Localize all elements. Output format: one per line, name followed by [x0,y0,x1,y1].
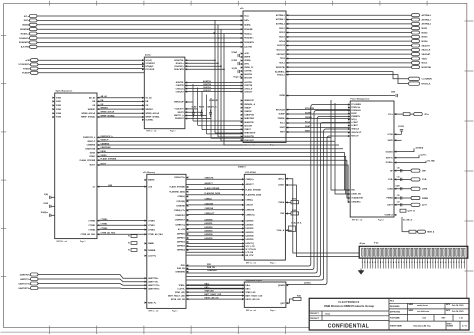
svg-text:4 / 11: 4 / 11 [462,325,466,328]
connector LDRA [411,187,420,190]
wire ROADNE [37,28,243,30]
svg-text:VCDW: VCDW [231,60,237,62]
svg-text:VBNDOUP: VBNDOUP [244,100,254,102]
svg-text:FLASH_STROBE: FLASH_STROBE [246,188,262,191]
pin WLBNGT (Audio) [185,117,187,119]
svg-text:C/WE1NE: C/WE1NE [176,206,185,208]
svg-text:NUMBER: NUMBER [447,325,453,327]
capacitor VCAW [237,54,239,57]
wire MODDTAI [286,66,412,68]
capacitor C21 [394,178,411,180]
pin DC/BAx (Power Management) [394,161,396,163]
pin QHSKN (Keyboard) [286,284,288,286]
svg-text:C/WE1NE: C/WE1NE [246,209,255,211]
svg-text:DBPRD3: DBPRD3 [177,246,185,248]
svg-text:BOOT: BOOT [101,163,107,165]
svg-text:DESK: DESK [90,152,96,154]
pin C/XD1M (LCD) [242,204,244,206]
svg-text:LCD 4/CHA: LCD 4/CHA [245,171,256,174]
svg-text:SDATA: SDATA [244,24,251,27]
svg-text:ESERVICE_b: ESERVICE_b [101,136,114,138]
pin LBXWD1 (LCD) [242,224,244,226]
svg-text:SILDDAT: SILDDAT [277,53,286,56]
svg-text:EGDP: EGDP [351,113,357,115]
svg-text:AB_A0: AB_A0 [89,96,95,99]
connector VPLx [410,113,414,115]
svg-text:LCDAT: LCDAT [351,121,358,124]
svg-text:CHSCKT: CHSCKT [203,90,212,92]
pin AXTRAL0 (uP) [286,14,288,16]
wire ROACLx branch [218,63,243,137]
svg-text:PCL/ENBV: PCL/ENBV [351,104,361,106]
svg-text:XWSHDL_A: XWSHDL_A [244,103,255,106]
svg-text:DBPRD0: DBPRD0 [177,234,185,236]
pin C/WE(L) (LCD) [242,199,244,201]
svg-text:FLASH/NE_DATA: FLASH/NE_DATA [169,190,185,193]
svg-text:Page 1: Page 1 [170,131,176,133]
pin C/WBKT-Q (uPx Memory) [186,224,188,226]
svg-text:Cur/SIN(P): Cur/SIN(P) [422,78,433,81]
svg-text:XWSK_FL: XWSK_FL [244,67,254,69]
svg-text:CTWE_AD_PAG: CTWE_AD_PAG [101,232,116,235]
svg-text:QxTT_B: QxTT_B [408,211,416,213]
svg-text:MOD3: MOD3 [279,37,285,39]
svg-text:ROACATN: ROACATN [174,68,184,71]
wire SLEEP [286,113,350,115]
pin SHWGITW (uP) [241,135,243,137]
pin KBW_PL (uPx Memory) [145,302,147,304]
svg-text:TXD0: TXD0 [280,58,285,60]
pin WREN_ACKxR (Audio) [142,112,144,114]
pin DB (Audio) [142,100,144,102]
svg-text:KEYB_LED_DN: KEYB_LED_DN [246,299,261,301]
connector RTS/CLS [409,82,420,85]
pin VCGA (Power Management) [394,133,396,135]
wire UATE [394,139,402,141]
svg-text:MVD LP: MVD LP [351,136,359,138]
svg-text:Chap: Chap [325,313,331,315]
pin MOD3 (uP) [286,36,288,38]
pin C/WE1NE (LCD) [242,209,244,211]
wire SCLx [37,15,243,17]
svg-text:CTWE_AD_PAG: CTWE_AD_PAG [80,233,95,236]
pin LCDTTL (uPx Memory) [186,288,188,290]
wire LBXKT4 [186,254,244,256]
connector VC/GESNTx [30,63,38,66]
svg-text:CHADRKx: CHADRKx [351,201,361,204]
resistor R10 [403,113,410,116]
pin RTS(A)P (Audio) [142,65,144,67]
pin ESERVICE_b (Speed Expansion) [97,136,99,138]
svg-text:SC_NB_A: SC_NB_A [403,219,412,222]
pin CHSCLK (uP) [241,88,243,90]
svg-text:LBXKT-Q: LBXKT-Q [246,243,255,245]
pin LCD/TTL (uPx Memory) [145,255,147,257]
svg-text:C/WPBXKT: C/WPBXKT [175,220,186,222]
svg-text:Page x: Page x [270,262,276,264]
pin CTWE1 (uPx Memory) [145,224,147,226]
svg-text:RTSNT: RTSNT [23,68,31,70]
pin LCD_DN (LCD) [242,251,244,253]
resistor R11 [402,231,409,233]
capacitor UQTE [237,70,239,73]
pin BATT_FAULT_LED (uPx Memory) [186,295,188,297]
wire CND [285,213,291,215]
wire AXTRAL0 [286,14,412,16]
svg-text:FLASH/NE_DATA: FLASH/NE_DATA [205,192,221,195]
svg-text:MOL0: MOL0 [279,63,284,65]
connector ROADLx [29,32,37,35]
pin CWDA (LCD) [285,201,287,203]
resistor PUM [291,212,299,215]
svg-text:TPBDL: TPBDL [178,285,185,287]
svg-text:CWDA: CWDA [278,201,285,204]
wire BATT_FAULT_LED [186,295,244,297]
svg-text:amelia hsiao: amelia hsiao [417,305,429,307]
wire AGNTNL [185,82,243,84]
svg-text:SHMGITW: SHMGITW [244,122,254,124]
wire SDAT [286,127,350,129]
svg-text:KEYB_LED_DN: KEYB_LED_DN [171,299,186,301]
svg-text:VHDB: VHDB [279,95,285,97]
svg-text:RTDCLk: RTDCLk [277,74,286,76]
svg-text:WDRK: WDRK [244,57,251,59]
svg-text:C/WE1NE: C/WE1NE [205,208,214,210]
pin DB (Speed Expansion) [97,100,99,102]
svg-text:VBNDOUP: VBNDOUP [174,102,184,104]
pin VDSRk (uP) [241,59,243,61]
wire MOD3 [286,36,412,38]
svg-text:I/O_A0: I/O_A0 [146,96,152,99]
pin ROACLx (Audio) [185,62,187,64]
capacitor C22 [394,197,411,199]
pin VOB5 (Speed Expansion) [52,116,54,118]
svg-text:AXTRAL2: AXTRAL2 [422,23,432,26]
svg-text:CTWE1: CTWE1 [101,224,109,226]
pin DBPRD3 (uPx Memory) [186,245,188,247]
wire CAMERA [97,144,339,146]
connector VC4L [411,178,420,181]
svg-text:RTS(A)P: RTS(A)P [146,65,155,68]
wire ROACATx [185,29,221,66]
svg-text:SILD078: SILD078 [277,45,286,47]
svg-text:VSBUP: VSBUP [244,107,251,109]
pin LDRA (Power Management) [394,188,396,190]
capacitor C23 [394,204,411,206]
connector MOD3 [412,35,420,38]
svg-text:VOB0: VOB0 [56,97,61,99]
pin STAR_LED (Keyboard) [242,291,244,293]
svg-text:C/WE(L)CT: C/WE(L)CT [205,213,216,215]
svg-text:WE/DE1: WE/DE1 [88,109,96,111]
svg-text:LBXWD0: LBXWD0 [246,221,254,223]
pin CHBKNHN (uPx Memory) [186,271,188,273]
wire CTWE_AD_PAG [97,233,147,235]
capacitor C/KB [49,205,51,208]
pin Cur/SIN(P) (uP) [286,71,288,73]
svg-text:VBND-UP: VBND-UP [209,100,219,102]
resistor RP1 [131,235,137,238]
pin A/LBXCT (LCD) [242,183,244,185]
pin LEDCu (LCD) [285,178,287,180]
svg-text:Feb 14, 2001: Feb 14, 2001 [452,310,464,313]
pin VC/MICBT (Audio) [142,62,144,64]
wire DESK [97,153,350,190]
svg-text:LBXWD5: LBXWD5 [246,239,254,241]
svg-text:VOB1: VOB1 [56,101,61,103]
capacitor VDB [395,94,397,97]
svg-text:WWT: WWT [305,130,311,132]
pin DBPRD2 (uPx Memory) [186,241,188,243]
svg-text:uO: uO [92,186,95,188]
pin CSTTRk (uP) [241,70,243,72]
wire CTWE1 [97,224,147,226]
wire ROADTNL [185,20,215,60]
svg-text:C/KB: C/KB [43,203,48,205]
wire SILD078 [286,45,412,47]
svg-text:PWDBL: PWDBL [305,117,313,119]
wire Cur/SIN(P) [286,72,409,79]
pin FLASH_STROBE (LCD) [242,189,244,191]
pin CTWE_AD_PAG (Speed Expansion) [97,233,99,235]
svg-text:CHEXTB: CHEXTB [176,85,185,87]
pin LBXWD0 (LCD) [242,220,244,222]
wire LBXKT3 [186,251,244,253]
pin VCC_LCD (LCD) [242,245,244,247]
svg-text:RTE KOM: RTE KOM [276,109,285,111]
svg-text:Pages: Pages [270,145,275,147]
svg-text:UARTTRTSx: UARTTRTSx [148,287,160,290]
pin KBxL (Keyboard) [242,284,244,286]
wire CHSCKT [185,91,243,93]
svg-text:LBXWD2: LBXWD2 [246,228,254,230]
svg-text:VEGCH UP: VEGCH UP [351,132,362,134]
border frame outer bottom edge [1,331,474,333]
svg-text:MOD1: MOD1 [422,28,429,30]
pin ROACATx (Audio) [185,65,187,67]
svg-text:REF no : mk: REF no : mk [246,310,256,312]
svg-text:WREN_ACKxR: WREN_ACKxR [82,112,96,115]
svg-text:WE/RD: WE/RD [148,180,155,182]
svg-text:FLASH STROBE: FLASH STROBE [205,187,220,190]
capacitor VCDW [237,62,239,65]
svg-text:BOOT: BOOT [90,165,96,167]
svg-text:UQTE: UQTE [232,68,238,70]
connector MOD2 [412,31,420,34]
pin VC/NB_A (Power Management) [394,214,396,216]
svg-text:VIDEO: VIDEO [89,156,96,158]
svg-text:LEDCu: LEDCu [278,178,285,180]
svg-text:PROJECT: PROJECT [310,313,319,315]
pin WUBEB (uPx Memory) [145,249,147,251]
svg-text:ROADNE: ROADNE [20,28,30,31]
svg-text:LBXWD0: LBXWD0 [205,219,213,221]
wire LBXKT0 [186,243,244,245]
pin CHSCKT (uP) [241,91,243,93]
svg-text:VBUT5: VBUT5 [177,112,184,114]
svg-text:WUBEB: WUBEB [148,250,156,252]
svg-text:LCDTTL: LCDTTL [177,288,185,290]
svg-text:WREN_ACKxR: WREN_ACKxR [101,111,115,114]
svg-text:SDATA: SDATA [22,24,29,27]
pin C/XD1(M) (uPx Memory) [186,200,188,202]
svg-text:QxTTx: QxTTx [421,154,428,156]
svg-text:CRAP/USE: CRAP/USE [85,148,96,151]
svg-text:LNB: LNB [108,185,113,187]
svg-text:HDMI_A: HDMI_A [427,231,435,234]
pin VEGCH UP (Power Management) [348,131,350,133]
svg-text:AGNTNL: AGNTNL [176,81,185,84]
wire QWT [286,299,293,303]
svg-text:A/LBXCT: A/LBXCT [246,183,255,186]
pin WREN_ACKxR (Speed Expansion) [97,112,99,114]
svg-text:KBxL: KBxL [246,285,252,287]
pin VSBGT (uP) [241,128,243,130]
svg-text:REF NO : mk: REF NO : mk [352,220,362,222]
pin RTSDCLk (Power Management) [348,106,350,108]
wire LCDTT riser [186,129,350,280]
svg-text:CHSCLK: CHSCLK [176,88,185,90]
wire ROACATN [185,34,224,70]
svg-text:SLEEP: SLEEP [278,114,285,116]
svg-text:SDAT: SDAT [305,125,311,128]
capacitor C(A) [49,196,51,199]
wire CWDA [285,201,291,203]
pin WABE (uPx Memory) [145,242,147,244]
pin CRAP/USE (Speed Expansion) [97,148,99,150]
pin WREP_SIGNAL (Speed Expansion) [97,116,99,118]
pin C/WEKTQ (LCD) [242,214,244,216]
svg-text:MOL0: MOL0 [422,63,429,65]
connector uCIR [30,59,38,62]
wire ROADTNL branch [215,60,243,133]
pin KEYB_LED_DN (uPx Memory) [186,298,188,300]
connector ROADATN [29,41,37,44]
wire AXTRAL2 [286,23,412,25]
pin CTWE0 (uPx Memory) [145,220,147,222]
wire VC/GESNTx [38,63,144,65]
svg-text:SILDCLK: SILDCLK [276,50,285,52]
resistor RxB [293,297,301,300]
pin CND (LCD) [285,212,287,214]
svg-text:C/XD1M: C/XD1M [246,205,254,207]
wire DUB_DN riser [186,111,350,270]
svg-text:STAR_LED: STAR_LED [246,291,256,294]
wire CRAP/USE [97,148,343,150]
pin DA/TT (Power Management) [394,204,396,206]
pin VBNDOUP (uP) [241,99,243,101]
pin XWSK_FL (uP) [241,66,243,68]
svg-text:ROACATx: ROACATx [174,65,184,68]
svg-text:VDSRk: VDSRk [244,60,251,62]
wire RXD riser [186,105,350,267]
wire RTSNT [38,68,144,70]
wire RC_RBx [394,161,426,163]
bus wires audio-to-uP [193,84,243,138]
pin PC/LDOR (Audio) [142,68,144,70]
svg-text:ESERVICE_b: ESERVICE_b [83,137,96,139]
svg-text:UART/RXx: UART/RXx [20,273,31,276]
pin C/WPBXKT (uPx Memory) [186,219,188,221]
pin C/WE(L)+ (LCD) [242,178,244,180]
svg-text:ROADATN: ROADATN [19,41,30,44]
pin SILD078 (uP) [286,44,288,46]
pin KEYB_LED_DN (Keyboard) [242,298,244,300]
pin PWRBTN (Power Management) [348,115,350,117]
svg-text:ROADNE: ROADNE [244,28,253,31]
wire TXD0 [286,58,412,60]
pin C/WEP2D1 (uPx Memory) [186,214,188,216]
pin UHTL (uP) [241,63,243,65]
svg-text:C23: C23 [397,202,400,204]
wire CHSCLK [185,88,243,90]
resistor RP3 [131,249,137,252]
svg-text:CTWE0: CTWE0 [148,220,155,222]
pin CHSCLK (Audio) [185,88,187,90]
svg-text:VC4L: VC4L [422,178,428,181]
svg-text:VEDCLK: VEDCLK [351,129,359,131]
pin FLASH_STROBE (Speed Expansion) [97,159,99,161]
svg-text:ROADLx: ROADLx [244,32,253,35]
svg-text:C/WE(L): C/WE(L) [205,198,213,200]
svg-text:LIQW: LIQW [396,186,400,188]
wire UART/RXx [38,275,147,279]
svg-text:PWDBL: PWDBL [278,118,286,120]
wire STAR LED [186,291,244,293]
pin VOB4 (Speed Expansion) [52,112,54,114]
svg-text:C22: C22 [397,195,400,197]
svg-text:PW/BA: PW/BA [386,197,393,200]
wire AB_A0 [97,97,144,99]
svg-text:VCAW: VCAW [231,51,237,54]
svg-text:AXTRAL0: AXTRAL0 [422,14,432,17]
svg-text:VCGM: VCGM [398,126,404,128]
svg-text:Standard-A6 Top: Standard-A6 Top [413,325,431,328]
pin WX/TTx (Power Management) [394,157,396,159]
svg-text:BATT_FAULT_LED: BATT_FAULT_LED [246,294,263,297]
connector MOD1 [412,27,420,30]
wire UART/RTSx [38,287,147,290]
svg-text:DBPRD4: DBPRD4 [177,249,186,252]
capacitor C2 [201,110,203,113]
svg-text:KEYB_LED_DN: KEYB_LED_DN [205,298,220,300]
pin MOL0 (uP) [286,62,288,64]
svg-text:LBXWD3: LBXWD3 [246,232,254,234]
wire UART/TXx [38,279,147,282]
svg-text:Rx: Rx [128,243,130,245]
pin WE/RD (uPx Memory) [145,179,147,181]
svg-text:uPx Memory: uPx Memory [143,172,156,174]
pin SHGITW (uP) [241,73,243,75]
wire VIDEO-P [97,140,335,142]
svg-text:RXD0/CTSx: RXD0/CTSx [174,177,185,179]
pin XWSHDL_A (uP) [241,103,243,105]
svg-text:CTWE0: CTWE0 [101,219,108,221]
svg-text:Power Management: Power Management [351,97,370,100]
svg-text:MOD3: MOD3 [422,37,429,39]
pin FLASH/NE_DATA (uPx Memory) [186,191,188,193]
pin LCDAT (Power Management) [348,121,350,123]
svg-text:VC/NB_A: VC/NB_A [384,214,393,217]
svg-text:VC/GESNTx: VC/GESNTx [18,64,30,66]
pin RDx (Power Management) [348,189,350,191]
pin C/WE(L)CTx (uPx Memory) [186,209,188,211]
svg-text:UARTTTXx: UARTTTXx [148,280,159,283]
pin DATx (uP) [241,19,243,21]
svg-text:C/XD1(M): C/XD1(M) [205,203,214,205]
connector SILDDAT [412,53,420,56]
svg-text:UART/CTSx: UART/CTSx [19,282,31,285]
